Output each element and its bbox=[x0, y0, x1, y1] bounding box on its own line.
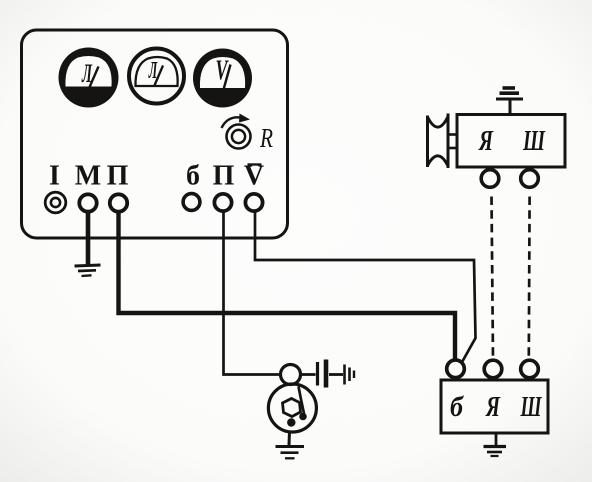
ground under М bbox=[75, 265, 101, 276]
terminal V bbox=[245, 194, 262, 211]
cam (hex) bbox=[283, 399, 301, 417]
generator terminal Я bbox=[481, 167, 499, 187]
breaker terminal bbox=[281, 365, 301, 385]
meter M1 (Л scale) bbox=[59, 48, 119, 108]
ground under breaker bbox=[276, 447, 305, 459]
generator ground stem (top) bbox=[509, 99, 512, 115]
thick wire П to regulator б bbox=[119, 212, 456, 360]
svg-text:П: П bbox=[107, 161, 129, 192]
contact dot bottom bbox=[287, 418, 295, 426]
generator terminal Ш bbox=[521, 167, 539, 187]
wire V to regulator б bbox=[255, 212, 476, 364]
overline on V label bbox=[248, 163, 262, 165]
capacitor C plates bbox=[318, 360, 327, 388]
pulley bbox=[428, 114, 449, 169]
regulator terminal Ш bbox=[521, 360, 539, 378]
shaft bracket bbox=[448, 135, 457, 149]
ground under regulator bbox=[484, 447, 507, 457]
relay-regulator box bbox=[441, 380, 548, 433]
svg-text:б: б bbox=[450, 392, 464, 423]
svg-text:Ш: Ш bbox=[522, 126, 546, 157]
terminal П left bbox=[110, 194, 127, 211]
terminal I bbox=[45, 192, 66, 213]
svg-text:б: б bbox=[186, 161, 200, 192]
svg-text:М: М bbox=[75, 161, 101, 192]
sideways ground at capacitor bbox=[345, 365, 355, 385]
wire capacitor to ground bbox=[329, 373, 343, 376]
svg-text:П: П bbox=[213, 161, 235, 192]
regulator terminal Я bbox=[484, 360, 502, 378]
contact dot right bbox=[299, 413, 307, 421]
meter M3 (voltmeter V) bbox=[193, 49, 252, 108]
terminal labels I М П б П V bbox=[49, 161, 264, 192]
wire to capacitor bbox=[301, 373, 316, 376]
svg-text:R: R bbox=[259, 123, 273, 153]
dashed wire Ш to regulator Ш bbox=[527, 197, 530, 359]
svg-text:I: I bbox=[49, 161, 60, 192]
regulator ground stem bbox=[495, 433, 498, 446]
svg-text:V: V bbox=[216, 56, 229, 87]
generator box bbox=[457, 115, 565, 168]
svg-text:Я: Я bbox=[485, 392, 500, 423]
ground above generator bbox=[496, 88, 523, 99]
contact arm bbox=[299, 387, 305, 414]
dashed wire Я to regulator Я bbox=[492, 197, 494, 359]
regulator terminal б bbox=[447, 360, 465, 378]
breaker ground stem bbox=[288, 432, 292, 446]
terminal М bbox=[79, 194, 96, 211]
meter M2 (Л scale) bbox=[129, 49, 184, 104]
svg-text:Я: Я bbox=[478, 126, 493, 157]
terminal б bbox=[183, 194, 200, 211]
wire П (right) to breaker bbox=[224, 212, 281, 375]
terminal П right bbox=[214, 194, 231, 211]
tester panel box bbox=[22, 30, 288, 238]
breaker body bbox=[268, 384, 316, 432]
svg-text:Ш: Ш bbox=[520, 392, 543, 423]
wire М to ground bbox=[86, 212, 91, 264]
rheostat R knob bbox=[222, 114, 274, 154]
